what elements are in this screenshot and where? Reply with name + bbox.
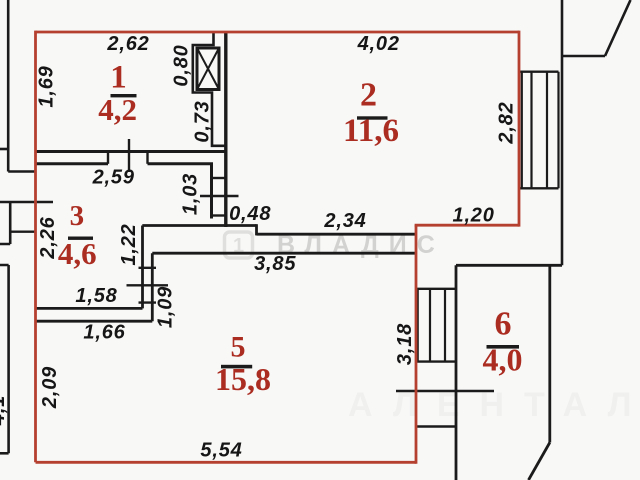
svg-text:2: 2 <box>360 77 377 114</box>
left outer wall vertical <box>7 0 10 172</box>
room 6 underline <box>487 345 520 349</box>
tick y267.8 <box>139 267 157 269</box>
room5-room6 opening bottom y426.5 <box>416 425 456 428</box>
svg-text:4,2: 4,2 <box>98 92 137 127</box>
red bottom wall <box>36 461 417 464</box>
corridor wall bottom line <box>152 252 416 255</box>
bottom window mullion 2 <box>444 289 446 362</box>
svg-text:3,18: 3,18 <box>394 323 416 365</box>
watermark logo box <box>225 232 253 258</box>
room6 west wall <box>455 265 458 480</box>
bottom window bottom <box>416 360 457 362</box>
svg-text:1,03: 1,03 <box>180 173 202 215</box>
svg-text:1,20: 1,20 <box>453 205 495 227</box>
svg-text:2,09: 2,09 <box>39 366 61 409</box>
red right lower wall <box>415 225 418 464</box>
room 5 underline <box>221 365 252 369</box>
right window bottom <box>520 187 559 189</box>
svg-text:5: 5 <box>231 331 246 364</box>
svg-text:4,02: 4,02 <box>357 33 400 55</box>
red mid horizontal wall <box>415 224 519 227</box>
dim line y196 <box>200 195 239 197</box>
svg-text:5,54: 5,54 <box>200 439 242 461</box>
corridor wall top line <box>257 233 417 236</box>
room3 bottom wall bottom line <box>36 320 153 323</box>
svg-text:4,6: 4,6 <box>58 236 97 271</box>
door jamb x108 <box>107 152 109 164</box>
svg-text:0,80: 0,80 <box>171 44 193 86</box>
svg-text:11,6: 11,6 <box>343 113 399 149</box>
bottom window mullion 1 <box>429 289 431 362</box>
svg-text:6: 6 <box>495 306 512 343</box>
svg-text:4,0: 4,0 <box>483 342 523 378</box>
vent duct outline <box>193 33 226 146</box>
top right outer wall <box>561 0 564 265</box>
left lower outer vertical <box>7 265 10 453</box>
svg-text:2,59: 2,59 <box>92 166 135 188</box>
svg-text:2,26: 2,26 <box>37 216 59 259</box>
svg-text:0,48: 0,48 <box>229 203 271 225</box>
door tick y178 <box>212 177 226 179</box>
dim line y285.3 <box>127 284 169 286</box>
red top wall <box>36 31 520 34</box>
svg-text:2,34: 2,34 <box>323 210 366 232</box>
svg-text:3,85: 3,85 <box>254 253 296 275</box>
svg-text:4,1: 4,1 <box>0 395 9 426</box>
svg-text:1: 1 <box>110 60 127 96</box>
door jamb x147.5 <box>146 152 148 164</box>
svg-text:1,22: 1,22 <box>118 223 140 265</box>
dim tick y391 <box>396 390 494 392</box>
outer diagonal <box>605 0 631 56</box>
right window right edge <box>557 72 559 189</box>
room3 east wall B <box>151 253 154 321</box>
wall room1/room3 bottom line <box>36 162 214 165</box>
right window left edge <box>521 72 523 189</box>
svg-text:1,09: 1,09 <box>155 286 177 328</box>
step horizontals y244 y265 <box>0 244 10 265</box>
tick y302.6 <box>139 301 157 303</box>
right window mullion 1 <box>530 72 532 189</box>
room6 top wall <box>456 264 562 267</box>
left outer wall branch <box>0 148 8 151</box>
red left wall <box>34 31 37 463</box>
room3 east wall A <box>141 226 144 309</box>
tick y171.5 to red <box>8 170 35 172</box>
svg-text:2,62: 2,62 <box>106 33 149 55</box>
wall room1/room2 <box>224 32 227 227</box>
svg-text:1,66: 1,66 <box>83 322 125 344</box>
vent shaft box <box>197 48 219 90</box>
room 3 underline <box>68 237 93 240</box>
right window mullion 2 <box>546 72 548 189</box>
svg-text:0,73: 0,73 <box>192 100 214 142</box>
left step vertical x10.2 <box>9 202 12 244</box>
hall west wall <box>210 164 213 219</box>
room labels <box>58 60 523 398</box>
wall room1/room3 top line <box>36 150 228 153</box>
vent shaft X <box>197 48 219 90</box>
svg-text:3: 3 <box>70 200 85 232</box>
room 2 underline <box>357 116 388 119</box>
svg-text:2,82: 2,82 <box>496 101 518 144</box>
svg-text:1,69: 1,69 <box>36 65 58 107</box>
svg-text:1,58: 1,58 <box>75 285 117 307</box>
room6 diagonal <box>529 443 550 480</box>
door tick y215.5 <box>212 214 226 216</box>
red right upper wall <box>518 31 521 227</box>
right window top <box>520 70 559 72</box>
hall bottom wall top line <box>142 224 256 227</box>
svg-text:15,8: 15,8 <box>215 361 271 397</box>
tick y202 full <box>0 201 53 203</box>
room 1 underline <box>111 94 137 97</box>
tick y231.7 <box>10 230 35 232</box>
dimension labels <box>0 33 518 462</box>
bottom window left edge <box>417 289 419 362</box>
outer ledge y56 <box>562 55 605 58</box>
apartment red boundary <box>36 31 520 464</box>
bottom window top <box>416 288 457 290</box>
step vertical x256.5 <box>255 224 258 235</box>
room6 east wall <box>548 265 551 442</box>
bottom left outer horizontal <box>0 452 9 455</box>
dim tick x129 <box>128 139 130 172</box>
room3 bottom wall top line <box>36 307 143 310</box>
